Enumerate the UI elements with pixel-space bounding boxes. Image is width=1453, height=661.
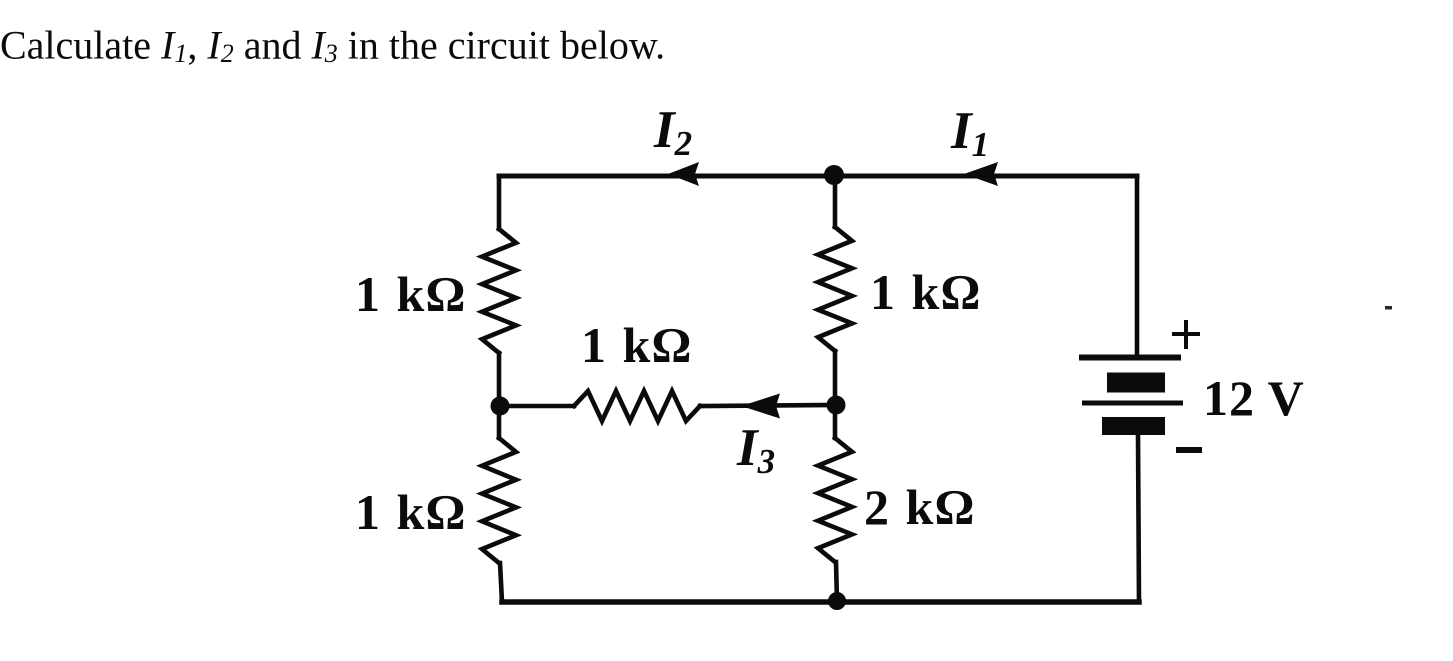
junction node top middle [824,165,844,185]
wire right branch bottom [1138,435,1139,602]
resistor R middle-bottom 2 kOhm [818,438,852,562]
battery plate long 1 [1079,355,1181,361]
junction node bottom middle [828,592,846,610]
wire middle branch middle [833,351,838,438]
arrow I1 current [964,162,998,186]
battery B1 12 V [1079,358,1183,436]
label plus sign [1172,320,1200,349]
scan speck [1385,306,1392,310]
resistor R middle-top 1 kOhm [818,227,852,351]
wire left branch top stub [497,176,502,229]
junction node centre [827,396,846,415]
svg-text:1 kΩ: 1 kΩ [355,266,467,322]
resistor R horizontal 1 kOhm [574,391,700,421]
wire bottom horizontal [502,599,1139,605]
arrow I3 current [741,394,780,419]
svg-text:1 kΩ: 1 kΩ [870,264,982,320]
label minus sign [1176,447,1202,453]
wire node A to horizontal resistor [499,404,574,409]
svg-text:1 kΩ: 1 kΩ [581,317,693,373]
arrow I2 current [668,162,699,186]
wire left branch bottom stub [500,563,502,602]
wire middle branch bottom stub [836,562,837,602]
battery plate long 2 [1082,401,1183,406]
wire right branch top [1135,176,1140,357]
battery plate thick 1 [1107,373,1165,393]
svg-text:2 kΩ: 2 kΩ [864,479,976,535]
svg-text:12 V: 12 V [1203,370,1305,426]
wire horizontal resistor to node B [700,405,835,406]
wire left branch middle [497,353,502,438]
resistor R upper-left 1 kOhm [482,229,516,353]
svg-text:1 kΩ: 1 kΩ [355,484,467,540]
wire top horizontal [499,174,1137,179]
wire middle branch top stub [833,176,838,227]
resistor R lower-left 1 kOhm [482,438,516,563]
junction node left middle [491,397,510,416]
battery plate thick 2 [1102,417,1165,435]
